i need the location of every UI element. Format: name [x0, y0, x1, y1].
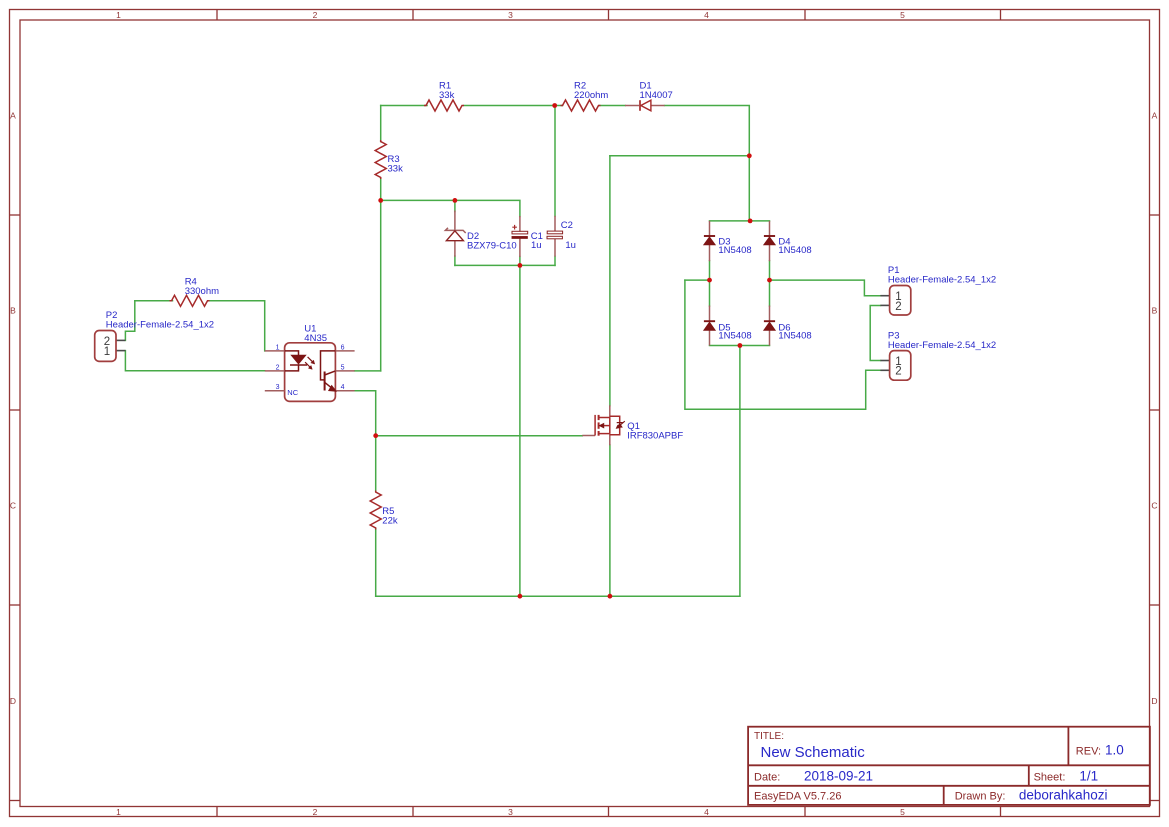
svg-text:New Schematic: New Schematic [761, 744, 866, 761]
resistor R4 330ohm [170, 295, 210, 306]
svg-text:D: D [1151, 696, 1157, 706]
U1 internal LED [285, 351, 307, 371]
U1 phototransistor [321, 351, 336, 391]
svg-text:5: 5 [900, 807, 905, 817]
svg-text:1N5408: 1N5408 [778, 330, 811, 341]
U1 pin 5 [335, 370, 354, 372]
TITLE BLOCK [748, 727, 1150, 805]
svg-text:2: 2 [895, 366, 901, 378]
svg-text:Header-Female-2.54_1x2: Header-Female-2.54_1x2 [888, 274, 996, 285]
junction bridge mid right [767, 278, 772, 283]
resistor R2 220ohm [561, 100, 601, 111]
Q1 drain lead [609, 405, 611, 417]
wire bridge bottom bar [710, 345, 770, 347]
wire C1 node down to bottom rail [519, 265, 521, 596]
wire left mid bar [685, 279, 710, 281]
wire D6 upper stub [769, 280, 771, 306]
svg-text:REV:: REV: [1076, 746, 1101, 758]
svg-text:4: 4 [704, 10, 709, 20]
wire gate node to Q1 gate [376, 435, 583, 437]
diode D4 1N5408 [764, 221, 776, 261]
svg-text:5: 5 [900, 10, 905, 20]
wire top rail left of R1 [381, 105, 427, 107]
wire R4 right down to U1 pin1 [209, 301, 265, 351]
svg-text:IRF830APBF: IRF830APBF [627, 430, 683, 441]
svg-text:A: A [10, 111, 16, 121]
junction node D1 right column [747, 153, 752, 158]
svg-text:2: 2 [313, 10, 318, 20]
wire left loop to P3 pin2 [685, 280, 881, 409]
svg-text:C: C [1151, 501, 1157, 511]
svg-text:Header-Female-2.54_1x2: Header-Female-2.54_1x2 [888, 340, 996, 351]
junction bridge mid left [707, 278, 712, 283]
svg-text:EasyEDA V5.7.26: EasyEDA V5.7.26 [754, 791, 841, 803]
svg-text:1: 1 [116, 807, 121, 817]
svg-text:33k: 33k [388, 164, 404, 175]
wire right mid to P1 pin1 [770, 280, 881, 296]
wire bridge top bar [710, 220, 770, 222]
wire C2 bottom stub [554, 256, 556, 265]
wire R2 to D1 [600, 105, 626, 107]
wire node down to U1 pin5 [380, 200, 382, 371]
Q1 gate lead [582, 435, 595, 437]
svg-text:A: A [1152, 111, 1158, 121]
wire P1 pin2 to P3 pin1 [870, 306, 880, 361]
capacitor C1 1u polarized [512, 216, 528, 257]
svg-text:220ohm: 220ohm [574, 90, 608, 101]
svg-text:1/1: 1/1 [1079, 769, 1098, 784]
svg-text:TITLE:: TITLE: [754, 731, 784, 742]
junction bottom rail Q1 [608, 594, 613, 599]
svg-text:33k: 33k [439, 90, 455, 101]
wire D2 top stub [454, 200, 456, 211]
junction node C1 bottom [518, 263, 523, 268]
svg-text:C: C [10, 501, 16, 511]
resistor R1 33k [424, 100, 464, 111]
connector P3 Header-Female-2.54_1x2 [880, 351, 910, 381]
wire D5 upper stub [709, 280, 711, 306]
wire R5 bottom to rail [375, 529, 377, 596]
wire left vertical above R3 [380, 106, 382, 142]
svg-text:4: 4 [341, 384, 345, 391]
svg-text:4N35: 4N35 [304, 333, 327, 344]
svg-text:3: 3 [508, 807, 513, 817]
wire Q1 source down to bottom rail [609, 445, 611, 596]
svg-text:BZX79-C10: BZX79-C10 [467, 240, 517, 251]
wire D1 to right corner and down to bridge [665, 106, 750, 221]
svg-text:1: 1 [116, 10, 121, 20]
svg-text:Date:: Date: [754, 772, 780, 784]
svg-text:1u: 1u [531, 240, 542, 251]
diode D3 1N5408 [704, 221, 716, 261]
svg-text:2018-09-21: 2018-09-21 [804, 769, 873, 784]
transistor Q1 IRF830APBF [582, 405, 625, 445]
Q1 source lead [609, 434, 611, 446]
svg-text:deborahkahozi: deborahkahozi [1019, 788, 1108, 803]
wire bridge bottom down to rail corner [739, 346, 741, 597]
junction bridge bottom [738, 343, 743, 348]
U1 light arrows [305, 357, 315, 370]
resistor R3 33k [375, 140, 386, 179]
wire bottom rail [376, 595, 740, 597]
resistor R5 22k [370, 491, 381, 530]
diode D1 1N4007 [625, 100, 665, 111]
svg-text:1N5408: 1N5408 [718, 330, 751, 341]
svg-text:2: 2 [895, 301, 901, 313]
U1 pin 1 [265, 350, 285, 352]
svg-text:330ohm: 330ohm [185, 286, 219, 297]
junction gate node [373, 433, 378, 438]
connector P1 Header-Female-2.54_1x2 [880, 286, 910, 316]
U1 pin 3 [265, 390, 285, 392]
svg-text:B: B [1152, 306, 1158, 316]
junction bridge top [748, 219, 753, 224]
wire bottom D2 to C2 [455, 264, 555, 266]
U1 pin 4 [335, 390, 354, 392]
wire D3 lower stub [709, 261, 711, 280]
svg-text:1: 1 [104, 346, 110, 358]
svg-text:1N5408: 1N5408 [778, 245, 811, 256]
U1 pin 2 [265, 370, 285, 372]
svg-text:Drawn By:: Drawn By: [955, 791, 1006, 803]
svg-text:4: 4 [704, 807, 709, 817]
svg-text:1N4007: 1N4007 [640, 90, 673, 101]
wire C1 bottom stub [519, 257, 521, 266]
svg-text:2: 2 [276, 364, 280, 371]
svg-text:C2: C2 [561, 220, 573, 231]
wire mid horizontal to Q1 drain column [610, 155, 749, 157]
capacitor C2 1u [547, 216, 563, 257]
svg-text:3: 3 [508, 10, 513, 20]
junction node R3 bottom [378, 198, 383, 203]
op-to-coupler U1 4N35 [265, 343, 355, 402]
svg-text:22k: 22k [382, 516, 398, 527]
svg-text:3: 3 [276, 384, 280, 391]
svg-text:Header-Female-2.54_1x2: Header-Female-2.54_1x2 [106, 320, 214, 331]
junction bottom rail C1 [518, 594, 523, 599]
svg-text:2: 2 [313, 807, 318, 817]
wire U1 pin5 to vertical [355, 370, 381, 372]
svg-text:1.0: 1.0 [1105, 743, 1124, 758]
wire U1 pin4 down to gate node [355, 391, 376, 436]
svg-text:1: 1 [276, 344, 280, 351]
svg-text:D: D [10, 696, 16, 706]
wire P2 pin1 to U1 pin2 [125, 351, 264, 371]
wire node to C1 top [381, 200, 520, 216]
svg-text:B: B [10, 306, 16, 316]
wire R3 bottom to node [380, 178, 382, 200]
wire gate node down to R5 [375, 436, 377, 491]
zener diode D2 BZX79-C10 [445, 211, 465, 257]
diode D6 1N5408 [764, 306, 776, 346]
svg-text:5: 5 [341, 364, 345, 371]
svg-text:6: 6 [341, 344, 345, 351]
wire Q1 drain vertical [609, 156, 611, 406]
wire R4 left [135, 300, 173, 302]
svg-text:1u: 1u [565, 240, 576, 251]
svg-text:NC: NC [287, 388, 298, 397]
U1 pin 6 [335, 350, 354, 352]
junction node D2 top [453, 198, 458, 203]
wire node to C2 top [554, 106, 556, 217]
wire R1 to R2 through node [464, 105, 563, 107]
diode D5 1N5408 [704, 306, 716, 346]
wire P2 pin2 up to R4 [125, 301, 134, 341]
svg-text:1N5408: 1N5408 [718, 245, 751, 256]
svg-text:Sheet:: Sheet: [1034, 772, 1066, 784]
junction node R1-R2-C2 [552, 103, 557, 108]
connector P2 Header-Female-2.54_1x2 [95, 331, 126, 362]
wire D2 bottom stub [454, 256, 456, 265]
wire D4 lower stub [769, 261, 771, 280]
